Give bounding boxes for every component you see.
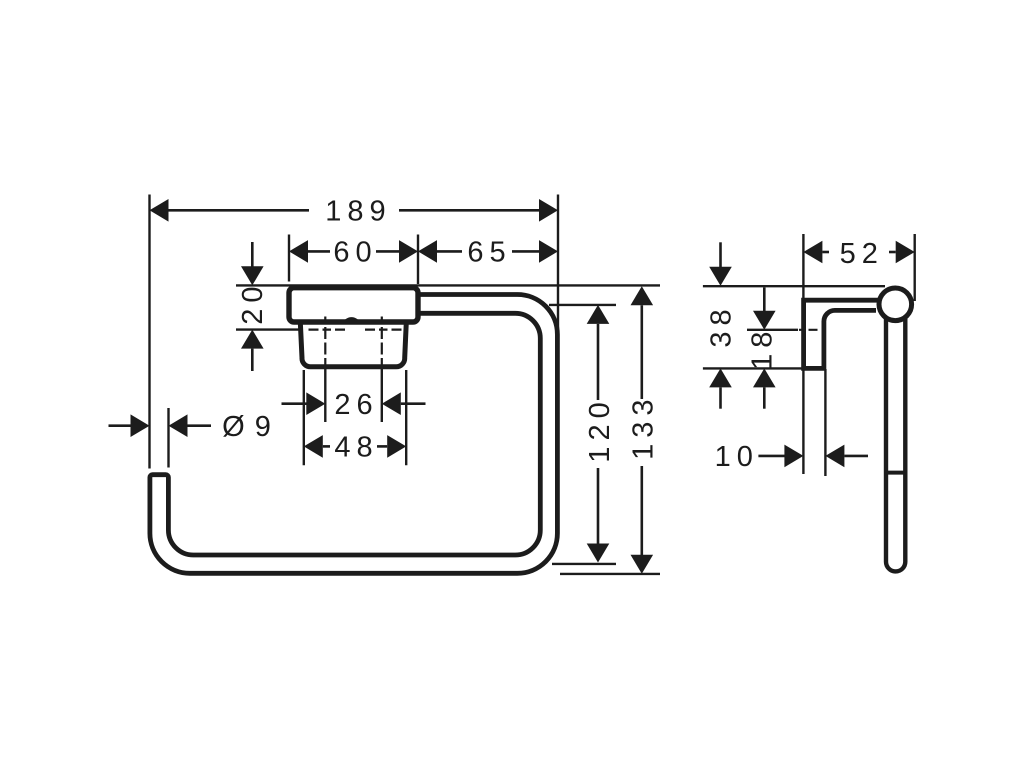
- extension line 120 bottom: [552, 563, 616, 565]
- svg-text:38: 38: [706, 303, 738, 347]
- extension line plate top / 133 top: [236, 284, 660, 286]
- dimension 133: [631, 286, 654, 305]
- extension line hole axis level 20: [236, 328, 302, 330]
- extension line 120 top: [549, 304, 616, 306]
- dimension dia 9: [109, 424, 132, 427]
- dimension 26: [282, 402, 308, 405]
- svg-text:26: 26: [334, 389, 378, 421]
- side view: extension line wall side 52/10: [802, 234, 804, 474]
- dimension 120: [587, 305, 610, 324]
- svg-text:48: 48: [334, 432, 378, 464]
- side view: hole centerline dash: [799, 329, 822, 331]
- side view: tube end cap circle: [879, 288, 912, 321]
- side view: extension line top tangent 38: [703, 285, 885, 287]
- side view: ring open end seam: [886, 471, 905, 475]
- side view: extension line 52 right: [914, 234, 916, 301]
- dimension 189: [168, 209, 309, 212]
- hole centerline cross left: [309, 329, 346, 331]
- svg-text:52: 52: [840, 238, 884, 270]
- side view: extension line hole axis 18: [747, 329, 798, 331]
- svg-text:Ø 9: Ø 9: [222, 411, 272, 443]
- dimension 65: [436, 250, 462, 253]
- extension line right 189: [557, 195, 559, 331]
- extension line left 189: [148, 195, 150, 469]
- dimension 38: [719, 242, 722, 267]
- cover plate front view: [289, 288, 418, 322]
- svg-text:65: 65: [467, 237, 511, 269]
- mounting block front view: [300, 320, 406, 367]
- cover plate bottom center notch: [346, 319, 358, 321]
- svg-text:20: 20: [237, 280, 269, 324]
- extension line ring inner left: [167, 408, 169, 468]
- svg-text:133: 133: [627, 394, 659, 460]
- dimension 60: [307, 250, 330, 253]
- dimension 48: [304, 435, 323, 458]
- extension line 60/65 middle: [417, 235, 419, 285]
- dimension 52: [803, 241, 822, 264]
- side view: ring tube hanging: [886, 318, 905, 571]
- extension line 26 right: [381, 368, 383, 422]
- svg-text:60: 60: [333, 237, 377, 269]
- hole centerline cross right: [365, 329, 402, 331]
- svg-text:120: 120: [584, 396, 616, 462]
- dimension 18: [763, 288, 766, 312]
- towel ring outline front view: [150, 295, 558, 574]
- dimension 20: [251, 242, 254, 267]
- extension line 48 left: [303, 370, 305, 465]
- svg-text:189: 189: [325, 196, 391, 228]
- svg-text:18: 18: [747, 326, 779, 370]
- side view: extension line plate front 10: [824, 369, 826, 476]
- extension line 26 left: [324, 368, 326, 422]
- extension line 60 left: [288, 235, 290, 282]
- extension line 48 right: [405, 370, 407, 465]
- side view: bracket profile: [804, 300, 880, 368]
- dimension 10: [758, 455, 785, 458]
- extension line 133 bottom: [560, 573, 660, 575]
- svg-text:10: 10: [715, 441, 759, 473]
- side view: extension line bottom 38/18: [703, 367, 803, 369]
